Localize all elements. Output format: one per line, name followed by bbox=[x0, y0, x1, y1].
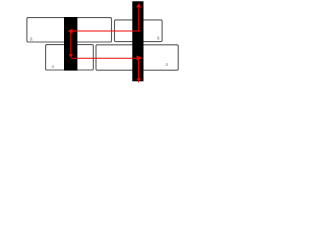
black bar 2 (right vertical bar) bbox=[132, 1, 143, 81]
box 2 (top-right rectangle) bbox=[115, 20, 163, 42]
arrowhead down (inside bar 1) bbox=[69, 54, 73, 58]
red vertical line (lower part of bar 2) bbox=[138, 59, 140, 83]
red arrow line 1 (horizontal, bar2 up to bar1 left) bbox=[72, 7, 139, 31]
black bar 1 (left vertical bar) bbox=[64, 17, 77, 71]
box 1 (top-left rectangle) bbox=[27, 18, 112, 42]
box 4 (lower-right rectangle) bbox=[96, 45, 178, 70]
box 3 (lower-left rectangle) bbox=[46, 45, 94, 70]
arrowhead right (into bar 2) bbox=[137, 55, 143, 60]
arrowhead up (top of bar 2) bbox=[136, 3, 141, 7]
red horizontal line (y=58) bbox=[71, 57, 137, 59]
svg-text:a: a bbox=[165, 62, 168, 68]
arrowhead left (on bar 1) bbox=[68, 29, 73, 34]
svg-text:a: a bbox=[30, 37, 33, 43]
red arrow line 2 (drop in bar1, across to bar2) bbox=[70, 32, 72, 54]
svg-text:a: a bbox=[157, 35, 160, 41]
svg-text:a: a bbox=[51, 64, 54, 70]
arrowhead up (bottom of bar 2) bbox=[136, 76, 141, 79]
